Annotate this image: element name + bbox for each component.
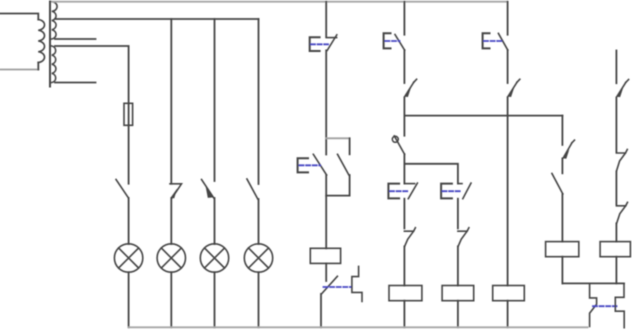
push button E4 NC contact [388, 183, 417, 199]
limit contact with loop [394, 136, 404, 154]
wire tap stub 2 [55, 82, 96, 84]
wire feed corner to relay contact K5a [561, 116, 563, 145]
wire lamp H2 to rail [170, 272, 172, 327]
NC relay contact above K3 [458, 228, 469, 247]
wire coil K3 to rail [457, 301, 459, 328]
transformer T1 secondary winding B [52, 46, 56, 83]
wire lamp H3 to rail [214, 272, 216, 327]
mechanical link dashes under K1 [324, 286, 352, 288]
wire coil K1 down [325, 263, 327, 281]
wire E5 to NC contact [457, 199, 459, 229]
lamp H3 [200, 244, 228, 272]
wire column lamp 4 [258, 19, 260, 184]
push button E1 NC contact [310, 35, 337, 51]
wire coil K6 down [615, 257, 617, 284]
wire S2 to lamp H2 [170, 198, 172, 244]
wire S1 to lamp H1 [128, 198, 130, 244]
changeover contact left pole under K1 [322, 276, 338, 294]
top supply rail L+ [52, 1, 508, 3]
wire S5 to coil K5 [561, 194, 563, 242]
lamp H4 [244, 244, 272, 272]
wire tap stub 1 [55, 38, 96, 40]
transformer T1 primary winding [38, 20, 44, 63]
wire branch to column 3 [404, 164, 458, 184]
wire column lamp 2 [170, 19, 172, 184]
transformer T1 primary bottom lead [0, 69, 38, 71]
relay coil K4 [493, 286, 525, 301]
wire lamp H4 to rail [258, 272, 260, 327]
NC relay contact above K2 [404, 228, 415, 247]
wire rail to push button E1 [325, 2, 327, 37]
wire coil K2 to rail [403, 301, 405, 328]
wire E1 to branch [325, 50, 327, 154]
changeover contact right pole bottom right [615, 283, 624, 327]
push button E2 NO contact [298, 154, 327, 175]
wire horizontal feed to right column [404, 115, 562, 117]
relay contact K4a [508, 79, 520, 96]
wire K6a to NC contact [615, 98, 617, 153]
NC relay contact R2 lower [616, 202, 627, 223]
wire join under coils K5 K6 [562, 282, 624, 284]
wire to distribution node [403, 97, 405, 135]
wire coil K4 to rail [507, 301, 509, 328]
relay contact K5a [563, 140, 574, 158]
wire column lamp 3 [214, 19, 216, 181]
lamp H1 [114, 244, 142, 272]
wire rail to push button E3 [403, 2, 405, 35]
wire to coil K6 [615, 223, 617, 241]
transformer T1 secondary winding A [52, 2, 57, 39]
push button E3 NO contact [384, 33, 405, 50]
wire to coil K3 [457, 246, 459, 285]
bottom return rail [129, 326, 588, 328]
wire E4 to NC contact [403, 199, 405, 229]
wire coil K5 down [561, 257, 563, 284]
wire fuse to switch S1 [128, 125, 130, 183]
wire rail corner to push button E6 [507, 2, 509, 35]
relay coil K1 [310, 248, 340, 263]
wire E6 to relay contact [507, 50, 509, 83]
wire K5a to switch [561, 158, 563, 173]
wire to coil K2 [403, 246, 405, 285]
relay coil K3 [442, 286, 474, 301]
changeover contact left pole bottom right [590, 283, 597, 326]
mechanical link dashes bottom right [593, 305, 617, 307]
NC relay contact R2 upper [616, 150, 627, 171]
wire top free end to relay contact K6a [615, 51, 617, 84]
switch S3 [202, 180, 214, 199]
relay coil K2 [389, 286, 422, 301]
wire tap secondary mid [55, 18, 259, 20]
transformer T1 core [49, 2, 51, 87]
wire branch top [326, 137, 349, 139]
relay contact K2a [405, 79, 417, 96]
relay contact K6a [617, 80, 629, 97]
fuse F1 [124, 103, 133, 125]
switch contact S5 [552, 173, 563, 194]
changeover contact right pole under K1 [352, 266, 362, 301]
auxiliary contact K1 parallel [338, 154, 349, 175]
wire branch bottom [326, 175, 349, 196]
relay coil K6 [600, 242, 630, 257]
wire E2 to coil K1 [325, 175, 327, 248]
relay coil K5 [546, 242, 579, 257]
lamp H2 [157, 244, 185, 272]
switch S1 [116, 180, 129, 199]
wire to coil K4 [507, 97, 509, 285]
wire tap winding B top [55, 46, 129, 125]
transformer T1 primary top lead [0, 14, 38, 20]
push button E5 NC contact [441, 183, 471, 199]
wire to branch split [403, 154, 405, 183]
wire S3 to lamp H3 [214, 198, 216, 244]
wire lamp H1 to rail [128, 272, 130, 327]
switch S2 [170, 184, 182, 198]
wire E3 to relay contact [403, 50, 405, 83]
wire S4 to lamp H4 [258, 199, 260, 244]
switch S4 [247, 179, 258, 199]
wire between NC contacts [615, 172, 617, 205]
push button E6 NO contact [483, 33, 508, 50]
